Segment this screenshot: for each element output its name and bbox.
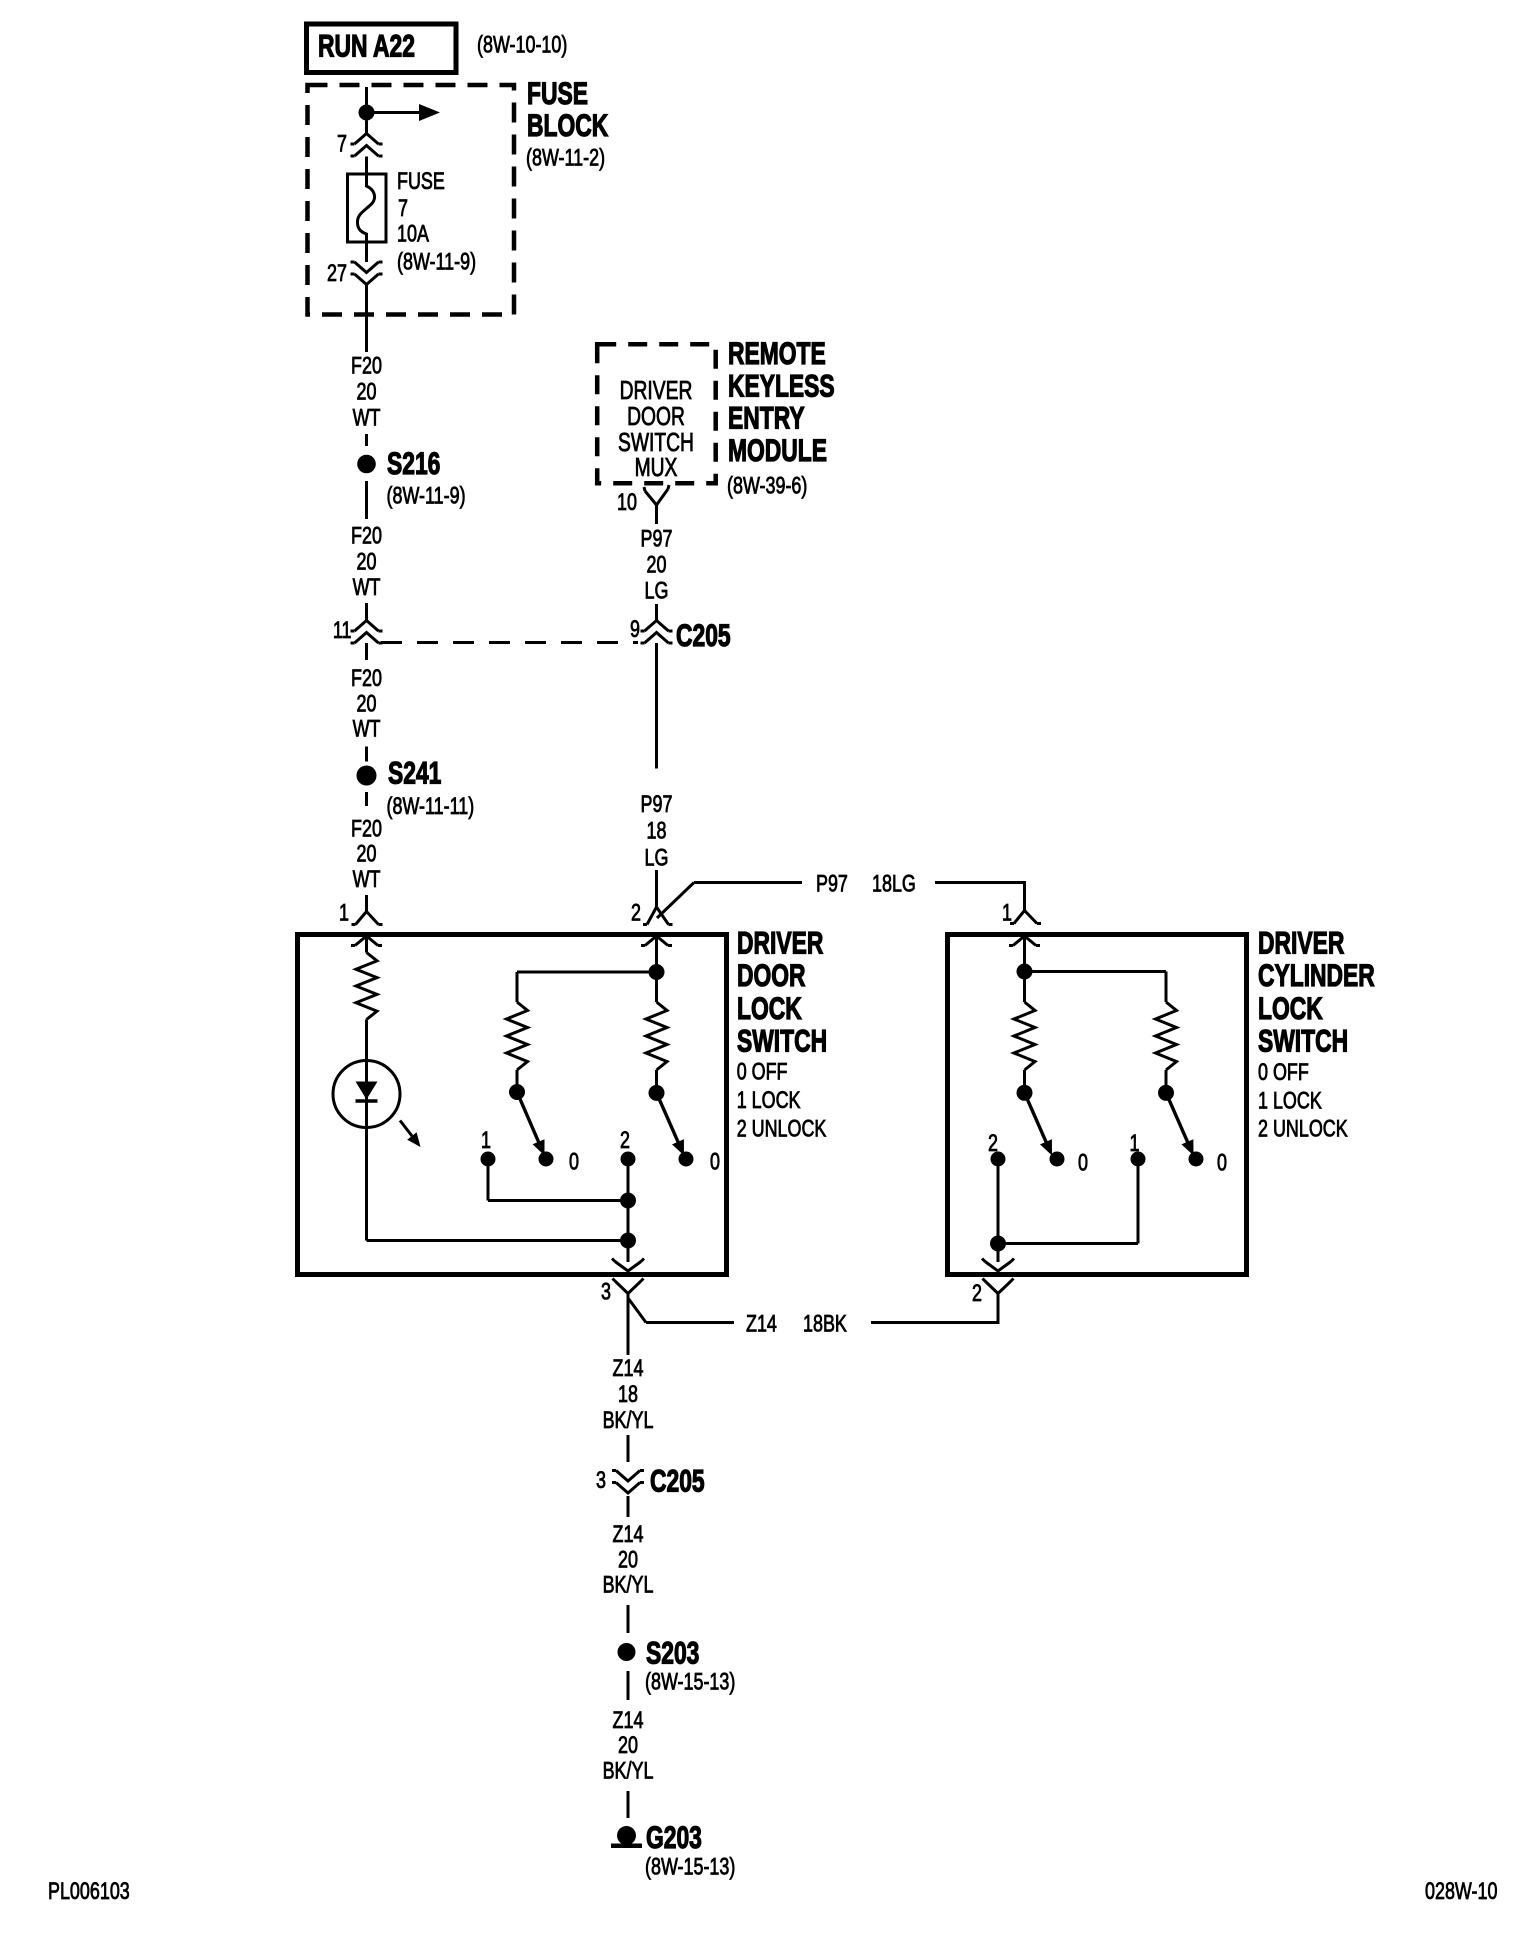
remote keyless entry module boundary (dashed) <box>597 344 716 483</box>
tap P97 18LG to cylinder lock switch <box>657 883 694 919</box>
node junction bus <box>990 1236 1006 1252</box>
connector pin 10 (module) <box>644 485 669 505</box>
svg-text:2: 2 <box>972 1279 982 1306</box>
LED indicator <box>333 1061 400 1128</box>
svg-text:18LG: 18LG <box>872 870 916 897</box>
wire above C205 pin 9 <box>655 604 658 621</box>
wire tap to unlock resistor <box>1025 970 1167 973</box>
svg-text:0: 0 <box>569 1148 579 1175</box>
svg-text:WT: WT <box>353 715 381 742</box>
svg-text:27: 27 <box>327 259 347 286</box>
svg-text:Z14: Z14 <box>613 1520 644 1547</box>
svg-text:0: 0 <box>1217 1149 1227 1176</box>
svg-text:1 LOCK: 1 LOCK <box>737 1086 801 1113</box>
svg-text:20: 20 <box>357 548 377 575</box>
contact 0 (right) <box>1189 1152 1204 1167</box>
resistor (lock side) <box>507 1002 528 1070</box>
svg-text:F20: F20 <box>351 352 382 379</box>
wire Z14 18BK link <box>628 1298 646 1323</box>
wire fuse to pin 27 <box>365 244 368 263</box>
svg-text:FUSE: FUSE <box>397 167 445 194</box>
contact 0 (unlock) <box>679 1152 694 1167</box>
svg-text:2: 2 <box>631 899 641 926</box>
svg-text:(8W-11-11): (8W-11-11) <box>387 792 475 819</box>
svg-text:9: 9 <box>630 615 640 642</box>
svg-text:Z14: Z14 <box>613 1355 644 1382</box>
wire stub above S241 <box>365 747 368 762</box>
svg-text:F20: F20 <box>351 664 382 691</box>
svg-text:S241: S241 <box>388 755 441 791</box>
wire above C205 pin 11 <box>365 603 368 621</box>
svg-text:2 UNLOCK: 2 UNLOCK <box>1258 1115 1348 1142</box>
svg-text:1 LOCK: 1 LOCK <box>1258 1087 1322 1114</box>
connector pin 1 into cylinder switch <box>1010 911 1041 924</box>
svg-text:0: 0 <box>1078 1149 1088 1176</box>
switch arm (right) <box>1166 1093 1189 1145</box>
wire below C205 to label stack <box>655 643 658 769</box>
node junction pin2 <box>649 964 665 980</box>
svg-text:0 OFF: 0 OFF <box>737 1058 788 1085</box>
svg-text:LG: LG <box>645 844 669 871</box>
svg-text:SWITCH: SWITCH <box>1258 1023 1348 1059</box>
connector pin 3 below switch <box>613 1279 644 1294</box>
svg-text:WT: WT <box>353 573 381 600</box>
wire below S216 <box>365 481 368 519</box>
svg-text:18BK: 18BK <box>803 1310 847 1337</box>
svg-text:PL006103: PL006103 <box>48 1877 130 1904</box>
pin 1 internal chevron <box>351 936 382 946</box>
arrow to pin 3 <box>612 1259 644 1272</box>
node wiper pivot (lock) <box>516 1070 519 1085</box>
pin 1 internal chevron <box>1009 936 1040 946</box>
svg-text:KEYLESS: KEYLESS <box>728 368 835 404</box>
svg-text:CYLINDER: CYLINDER <box>1258 957 1375 993</box>
wire contact1 to bus <box>1137 1159 1140 1244</box>
svg-text:ENTRY: ENTRY <box>728 400 805 436</box>
wire out of fuse block <box>365 285 368 353</box>
node junction in fuse block <box>359 105 375 121</box>
wire above pin 2 <box>655 870 658 907</box>
connector pin 7 (fuse block) <box>365 121 368 134</box>
connector pin 27 (fuse block) <box>351 262 383 273</box>
connector C205 pin 11 <box>351 621 383 632</box>
svg-text:2 UNLOCK: 2 UNLOCK <box>737 1115 827 1142</box>
switch arm (unlock) <box>657 1093 680 1145</box>
wire above C205 pin 3 <box>627 1435 630 1462</box>
wire contact1 to bus <box>487 1159 490 1201</box>
svg-text:MUX: MUX <box>635 452 678 482</box>
splice S216 <box>357 455 376 474</box>
svg-text:3: 3 <box>596 1466 606 1493</box>
connector C205 pin 9 <box>641 621 673 632</box>
svg-text:F20: F20 <box>351 815 382 842</box>
svg-text:028W-10: 028W-10 <box>1425 1877 1498 1904</box>
wire LED return <box>367 1239 629 1242</box>
svg-text:10A: 10A <box>397 220 430 247</box>
contact 0 (lock) <box>539 1152 554 1167</box>
svg-text:F20: F20 <box>351 522 382 549</box>
svg-text:BLOCK: BLOCK <box>527 107 608 143</box>
wire stub above S216 <box>365 434 368 446</box>
svg-text:(8W-11-9): (8W-11-9) <box>387 482 466 509</box>
svg-text:10: 10 <box>617 488 637 515</box>
svg-text:(8W-15-13): (8W-15-13) <box>645 1668 735 1695</box>
svg-text:(8W-15-13): (8W-15-13) <box>645 1853 735 1880</box>
fuse F7 10A <box>348 174 387 242</box>
wire tap to lock resistor <box>517 971 657 974</box>
svg-text:LG: LG <box>645 577 669 604</box>
wire resistor to LED <box>365 1020 368 1241</box>
svg-text:20: 20 <box>647 551 667 578</box>
svg-text:C205: C205 <box>650 1463 705 1499</box>
svg-text:LOCK: LOCK <box>737 990 802 1026</box>
svg-text:(8W-39-6): (8W-39-6) <box>727 472 807 499</box>
wire contact2 down <box>627 1159 630 1262</box>
connector pin 1 into switch <box>365 895 368 912</box>
resistor (unlock side) <box>1156 1002 1177 1070</box>
ground G203 <box>617 1826 636 1845</box>
svg-text:C205: C205 <box>676 617 731 653</box>
svg-text:P97: P97 <box>816 870 848 897</box>
component DRIVER DOOR LOCK SWITCH <box>298 935 727 1275</box>
fuse block boundary (dashed) <box>308 85 515 315</box>
svg-text:BK/YL: BK/YL <box>603 1757 654 1784</box>
switch arm (left) <box>1025 1093 1048 1145</box>
wire contact2 down <box>997 1159 1000 1262</box>
connector pin 2 below cylinder switch <box>983 1279 1014 1294</box>
svg-text:18: 18 <box>647 817 667 844</box>
svg-text:20: 20 <box>618 1546 638 1573</box>
svg-text:20: 20 <box>357 840 377 867</box>
splice S203 <box>618 1643 636 1661</box>
svg-text:MODULE: MODULE <box>728 432 827 468</box>
wire above S203 <box>627 1605 630 1633</box>
node junction pin1 <box>1017 964 1033 980</box>
node wiper pivot (right) <box>1158 1085 1174 1101</box>
svg-text:P97: P97 <box>641 525 673 552</box>
svg-text:1: 1 <box>339 899 349 926</box>
svg-text:G203: G203 <box>646 1819 702 1855</box>
svg-text:18: 18 <box>618 1380 638 1407</box>
svg-text:Z14: Z14 <box>613 1706 644 1733</box>
svg-text:(8W-10-10): (8W-10-10) <box>477 31 567 58</box>
svg-text:Z14: Z14 <box>746 1310 777 1337</box>
contact 0 (left) <box>1050 1152 1065 1167</box>
svg-text:2: 2 <box>620 1126 630 1153</box>
wire arrow to other circuits <box>367 111 422 114</box>
svg-text:0 OFF: 0 OFF <box>1258 1058 1309 1085</box>
wire below S203 <box>627 1671 630 1700</box>
splice S241 <box>357 766 377 786</box>
svg-text:3: 3 <box>601 1278 611 1305</box>
svg-text:S203: S203 <box>646 1635 699 1671</box>
switch arm (lock) <box>517 1092 540 1145</box>
svg-text:(8W-11-9): (8W-11-9) <box>397 248 476 275</box>
svg-text:7: 7 <box>337 130 347 157</box>
wire below pin 11 <box>365 643 368 660</box>
svg-text:1: 1 <box>481 1126 491 1153</box>
wire below C205 <box>627 1496 630 1517</box>
svg-text:BK/YL: BK/YL <box>603 1406 654 1433</box>
svg-text:S216: S216 <box>387 445 440 481</box>
svg-text:DRIVER: DRIVER <box>737 925 823 961</box>
svg-text:SWITCH: SWITCH <box>737 1023 827 1059</box>
svg-text:20: 20 <box>357 378 377 405</box>
svg-text:20: 20 <box>618 1732 638 1759</box>
svg-text:0: 0 <box>710 1148 720 1175</box>
svg-text:REMOTE: REMOTE <box>728 335 826 371</box>
resistor (LED feed) <box>356 953 377 1020</box>
wire from fuse block top to junction <box>365 87 368 106</box>
svg-text:P97: P97 <box>641 790 673 817</box>
wire above G203 <box>627 1791 630 1818</box>
svg-text:DOOR: DOOR <box>737 957 806 993</box>
svg-text:LOCK: LOCK <box>1258 990 1323 1026</box>
node junction bus2 (LED return) <box>620 1233 636 1249</box>
svg-text:WT: WT <box>353 404 381 431</box>
connector C205 pin 3 <box>612 1471 644 1482</box>
LED light arrow <box>400 1121 412 1137</box>
dashed connector link C205 <box>381 641 638 644</box>
node wiper pivot (left) <box>1017 1085 1033 1101</box>
svg-text:WT: WT <box>353 865 381 892</box>
wire stub below S241 <box>365 792 368 806</box>
wire junction to fuse <box>365 157 368 176</box>
node junction bus1 <box>620 1193 636 1209</box>
resistor (lock side) <box>1023 972 1026 1003</box>
svg-text:11: 11 <box>333 616 352 643</box>
node wiper pivot (unlock) <box>649 1085 665 1101</box>
svg-text:BK/YL: BK/YL <box>603 1571 654 1598</box>
svg-text:(8W-11-2): (8W-11-2) <box>526 144 605 171</box>
arrow to pin 2 <box>982 1259 1014 1272</box>
svg-text:DRIVER: DRIVER <box>1258 925 1344 961</box>
svg-text:RUN A22: RUN A22 <box>318 28 415 64</box>
node RUN A22 feed box <box>307 24 457 73</box>
svg-text:FUSE: FUSE <box>527 75 588 111</box>
resistor (unlock side) <box>655 972 658 1002</box>
connector pin 2 into switch <box>643 907 673 925</box>
component DRIVER CYLINDER LOCK SWITCH <box>948 935 1247 1275</box>
svg-text:7: 7 <box>398 194 408 221</box>
svg-text:20: 20 <box>357 690 377 717</box>
pin 2 internal chevron <box>641 936 672 946</box>
